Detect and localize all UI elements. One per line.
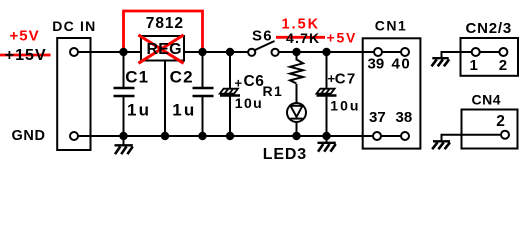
svg-text:C6: C6 — [244, 73, 265, 90]
svg-text:CN1: CN1 — [375, 18, 408, 34]
svg-text:2: 2 — [496, 113, 505, 130]
svg-text:+5V: +5V — [327, 30, 358, 46]
svg-text:C1: C1 — [125, 68, 149, 87]
svg-text:4.7K: 4.7K — [286, 30, 320, 46]
svg-text:C2: C2 — [170, 68, 194, 87]
svg-text:38: 38 — [396, 109, 413, 126]
svg-text:39: 39 — [368, 56, 385, 73]
svg-text:10u: 10u — [330, 98, 360, 114]
svg-text:40: 40 — [392, 56, 412, 73]
svg-text:37: 37 — [369, 109, 386, 126]
svg-text:CN4: CN4 — [472, 92, 502, 108]
svg-text:S6: S6 — [252, 27, 273, 44]
svg-text:GND: GND — [12, 128, 46, 144]
svg-text:1u: 1u — [127, 101, 151, 120]
svg-text:+15V: +15V — [5, 47, 47, 64]
svg-text:LED3: LED3 — [263, 146, 307, 162]
svg-text:2: 2 — [499, 57, 507, 74]
svg-text:C7: C7 — [335, 71, 357, 88]
svg-text:+: + — [235, 76, 243, 91]
svg-text:7812: 7812 — [146, 15, 184, 32]
svg-text:DC IN: DC IN — [52, 18, 96, 34]
svg-text:1: 1 — [470, 57, 478, 74]
svg-text:+5V: +5V — [10, 28, 40, 45]
svg-text:10u: 10u — [235, 95, 263, 111]
svg-text:R1: R1 — [263, 83, 284, 99]
svg-text:REG: REG — [147, 41, 182, 58]
svg-text:1u: 1u — [172, 101, 196, 120]
svg-text:CN2/3: CN2/3 — [466, 20, 513, 37]
